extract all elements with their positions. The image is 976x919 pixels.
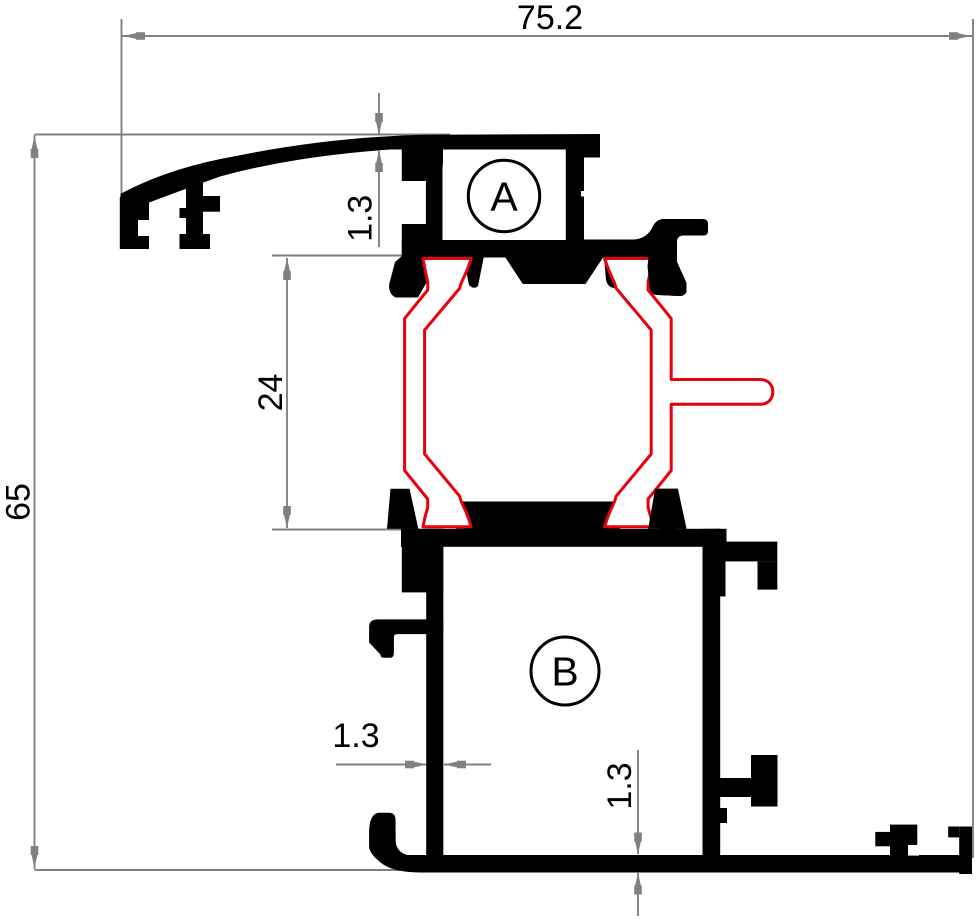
dimension 24 top arrow bbox=[283, 258, 291, 280]
dimension 1.3 top lower arrow bbox=[375, 150, 383, 172]
profile B bottom clip notch bbox=[908, 845, 919, 856]
dimension 1.3 bottom-right (plate thickness) lines bbox=[637, 750, 639, 916]
profile B interior bbox=[443, 547, 702, 855]
dimension 1.3 top (flange thickness) lines bbox=[378, 93, 380, 247]
profile B top-right stub bbox=[716, 529, 727, 542]
dimension 65 top arrow bbox=[31, 136, 39, 158]
profile A wing foot 1 notch bbox=[138, 220, 151, 236]
profile A box right wall bbox=[566, 147, 584, 241]
profile B bottom clip stub bbox=[875, 832, 890, 846]
svg-text:1.3: 1.3 bbox=[332, 717, 379, 755]
profile B top flange bbox=[401, 529, 719, 547]
dimension 65 bottom arrow bbox=[31, 846, 39, 868]
dimension 75.2 extension line right bbox=[972, 19, 974, 858]
svg-text:B: B bbox=[551, 649, 578, 695]
profile B right wall lower step bbox=[703, 808, 728, 823]
dimension 24 bottom arrow bbox=[283, 506, 291, 528]
profile B bottom-right tip lip bbox=[948, 827, 959, 838]
thermal break strip left (red) bbox=[405, 259, 472, 527]
dimension 24 line bbox=[286, 258, 288, 528]
profile A left claw bbox=[389, 256, 431, 298]
profile B right wall bbox=[703, 529, 721, 871]
svg-text:1.3: 1.3 bbox=[342, 195, 380, 242]
dimension 1.3 bottom-left (wall thickness) lines bbox=[336, 764, 491, 766]
dimension 65 extension line top bbox=[35, 134, 451, 136]
profile A wing foot 2 bbox=[180, 175, 221, 249]
dimension 75.2 extension line left bbox=[121, 19, 123, 196]
profile B top-right lip bbox=[758, 561, 778, 589]
profile B bottom plate with left foot bbox=[369, 813, 972, 873]
profile A center trapezoid block bbox=[504, 255, 605, 284]
profile B right clip bar bbox=[751, 755, 778, 807]
dimension 1.3 bottom-left right-pointing arrow bbox=[405, 761, 427, 769]
svg-text:65: 65 bbox=[0, 483, 38, 521]
profile B left upper block bbox=[402, 529, 444, 593]
dimension 1.3 bottom-left left-pointing arrow bbox=[444, 761, 466, 769]
profile B step under right claw bbox=[660, 516, 677, 530]
profile A claw left of right pad bbox=[604, 256, 622, 288]
profile B claw left of right pad bbox=[585, 502, 620, 530]
profile B left wall bbox=[426, 529, 443, 857]
label circle A bbox=[468, 160, 539, 231]
svg-text:24: 24 bbox=[252, 374, 290, 412]
thermal break strip right (red) with T-arm bbox=[605, 259, 773, 527]
profile B claw left of left pad bbox=[387, 489, 418, 529]
profile A box left wall bbox=[426, 147, 443, 258]
dimension 75.2 line bbox=[122, 35, 972, 37]
profile A bottom flange bbox=[402, 240, 642, 258]
profile A right end tab bbox=[584, 150, 600, 158]
dimension 75.2 left arrow bbox=[123, 32, 145, 40]
profile A claw right of left pad bbox=[463, 256, 484, 288]
profile B right clip stem bbox=[717, 778, 751, 797]
dimension 65 extension line bottom bbox=[35, 869, 431, 871]
svg-text:1.3: 1.3 bbox=[601, 762, 639, 809]
profile B bottom-right tip bar bbox=[959, 827, 972, 875]
profile A wing foot 1 bbox=[120, 197, 149, 249]
profile A right wall nick bbox=[581, 191, 585, 197]
profile A box lower-left block bbox=[402, 224, 443, 258]
profile B center raised block bbox=[464, 502, 606, 530]
profile A right foot redraw (grips red pad) bbox=[648, 236, 687, 296]
profile B right claw redraw (grips red pad) bbox=[648, 489, 686, 529]
dimension 75.2 right arrow bbox=[949, 32, 971, 40]
label circle B bbox=[531, 637, 599, 705]
dimension 65 line bbox=[34, 135, 36, 869]
dimension 24 extension line top bbox=[272, 255, 419, 257]
profile B top-right arm bbox=[710, 542, 777, 562]
svg-text:A: A bbox=[490, 174, 518, 220]
svg-text:75.2: 75.2 bbox=[517, 0, 583, 37]
dimension 1.3 bottom-right upper arrow bbox=[634, 833, 642, 855]
profile A box interior bbox=[443, 151, 566, 240]
profile B left hook bbox=[369, 619, 443, 657]
profile B claw right of left pad bbox=[456, 502, 485, 529]
profile A right arm and foot bbox=[584, 219, 708, 296]
profile B claw right of right pad bbox=[648, 489, 686, 529]
dimension 1.3 bottom-right lower arrow bbox=[634, 873, 642, 895]
profile B bottom clip bar bbox=[890, 825, 917, 856]
dimension 1.3 top upper arrow bbox=[375, 113, 383, 135]
dimension 24 extension line bottom bbox=[272, 529, 419, 531]
profile B right wall upper step bbox=[703, 542, 726, 597]
profile A box upper-left block bbox=[402, 147, 443, 181]
profile A wing and top plate bbox=[121, 134, 601, 212]
